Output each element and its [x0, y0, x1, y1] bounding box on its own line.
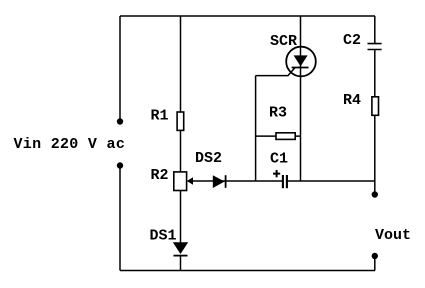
- wire left input drop: [119, 16, 121, 121]
- wire C2 to R4: [374, 50, 376, 97]
- diode DS1: [173, 242, 188, 254]
- svg-text:DS2: DS2: [195, 150, 222, 167]
- svg-text:R4: R4: [343, 92, 361, 109]
- diode DS2: [213, 175, 225, 188]
- resistor R3: [276, 133, 295, 140]
- C1 plus sign: [273, 170, 280, 177]
- svg-text:R1: R1: [151, 108, 169, 125]
- wire DS1 to bottom rail: [180, 256, 182, 271]
- wire right column top: [374, 16, 376, 43]
- svg-text:C2: C2: [343, 32, 361, 49]
- svg-text:Vout: Vout: [375, 227, 411, 244]
- svg-text:SCR: SCR: [270, 33, 297, 50]
- wire top rail: [120, 15, 375, 17]
- wire SCR gate: [256, 68, 295, 76]
- resistor R4: [372, 97, 379, 116]
- resistor R1: [177, 112, 184, 130]
- wire right bottom stub: [374, 256, 376, 271]
- svg-text:DS1: DS1: [150, 228, 177, 245]
- wire R3 frame left vertical: [255, 76, 257, 181]
- capacitor C1: [282, 175, 284, 188]
- wire R4 to output terminal: [374, 115, 376, 194]
- resistor R3 wires: [256, 135, 301, 137]
- wire SCR column: [300, 16, 302, 181]
- wire R2 to DS1: [180, 191, 182, 243]
- svg-text:C1: C1: [270, 151, 288, 168]
- SCR thyristor: [286, 47, 316, 77]
- node input terminal top: [117, 118, 123, 124]
- wire R1 to R2: [180, 130, 182, 172]
- potentiometer R2: [174, 172, 187, 191]
- R2 wiper arrow: [187, 177, 193, 185]
- svg-text:R3: R3: [269, 105, 287, 122]
- wire R1 column from top rail: [180, 16, 182, 112]
- node output terminal top: [372, 191, 378, 197]
- svg-text:R2: R2: [151, 167, 169, 184]
- wire bottom rail: [120, 270, 375, 272]
- node input terminal bottom: [117, 162, 123, 168]
- wire main horizontal (wiper to C1): [193, 180, 283, 182]
- svg-text:Vin 220 V ac: Vin 220 V ac: [14, 136, 126, 153]
- wire left bottom drop: [119, 166, 121, 271]
- capacitor C2: [368, 44, 382, 50]
- wire main horizontal (C1 to right column): [288, 180, 375, 182]
- node output terminal bottom: [372, 253, 378, 259]
